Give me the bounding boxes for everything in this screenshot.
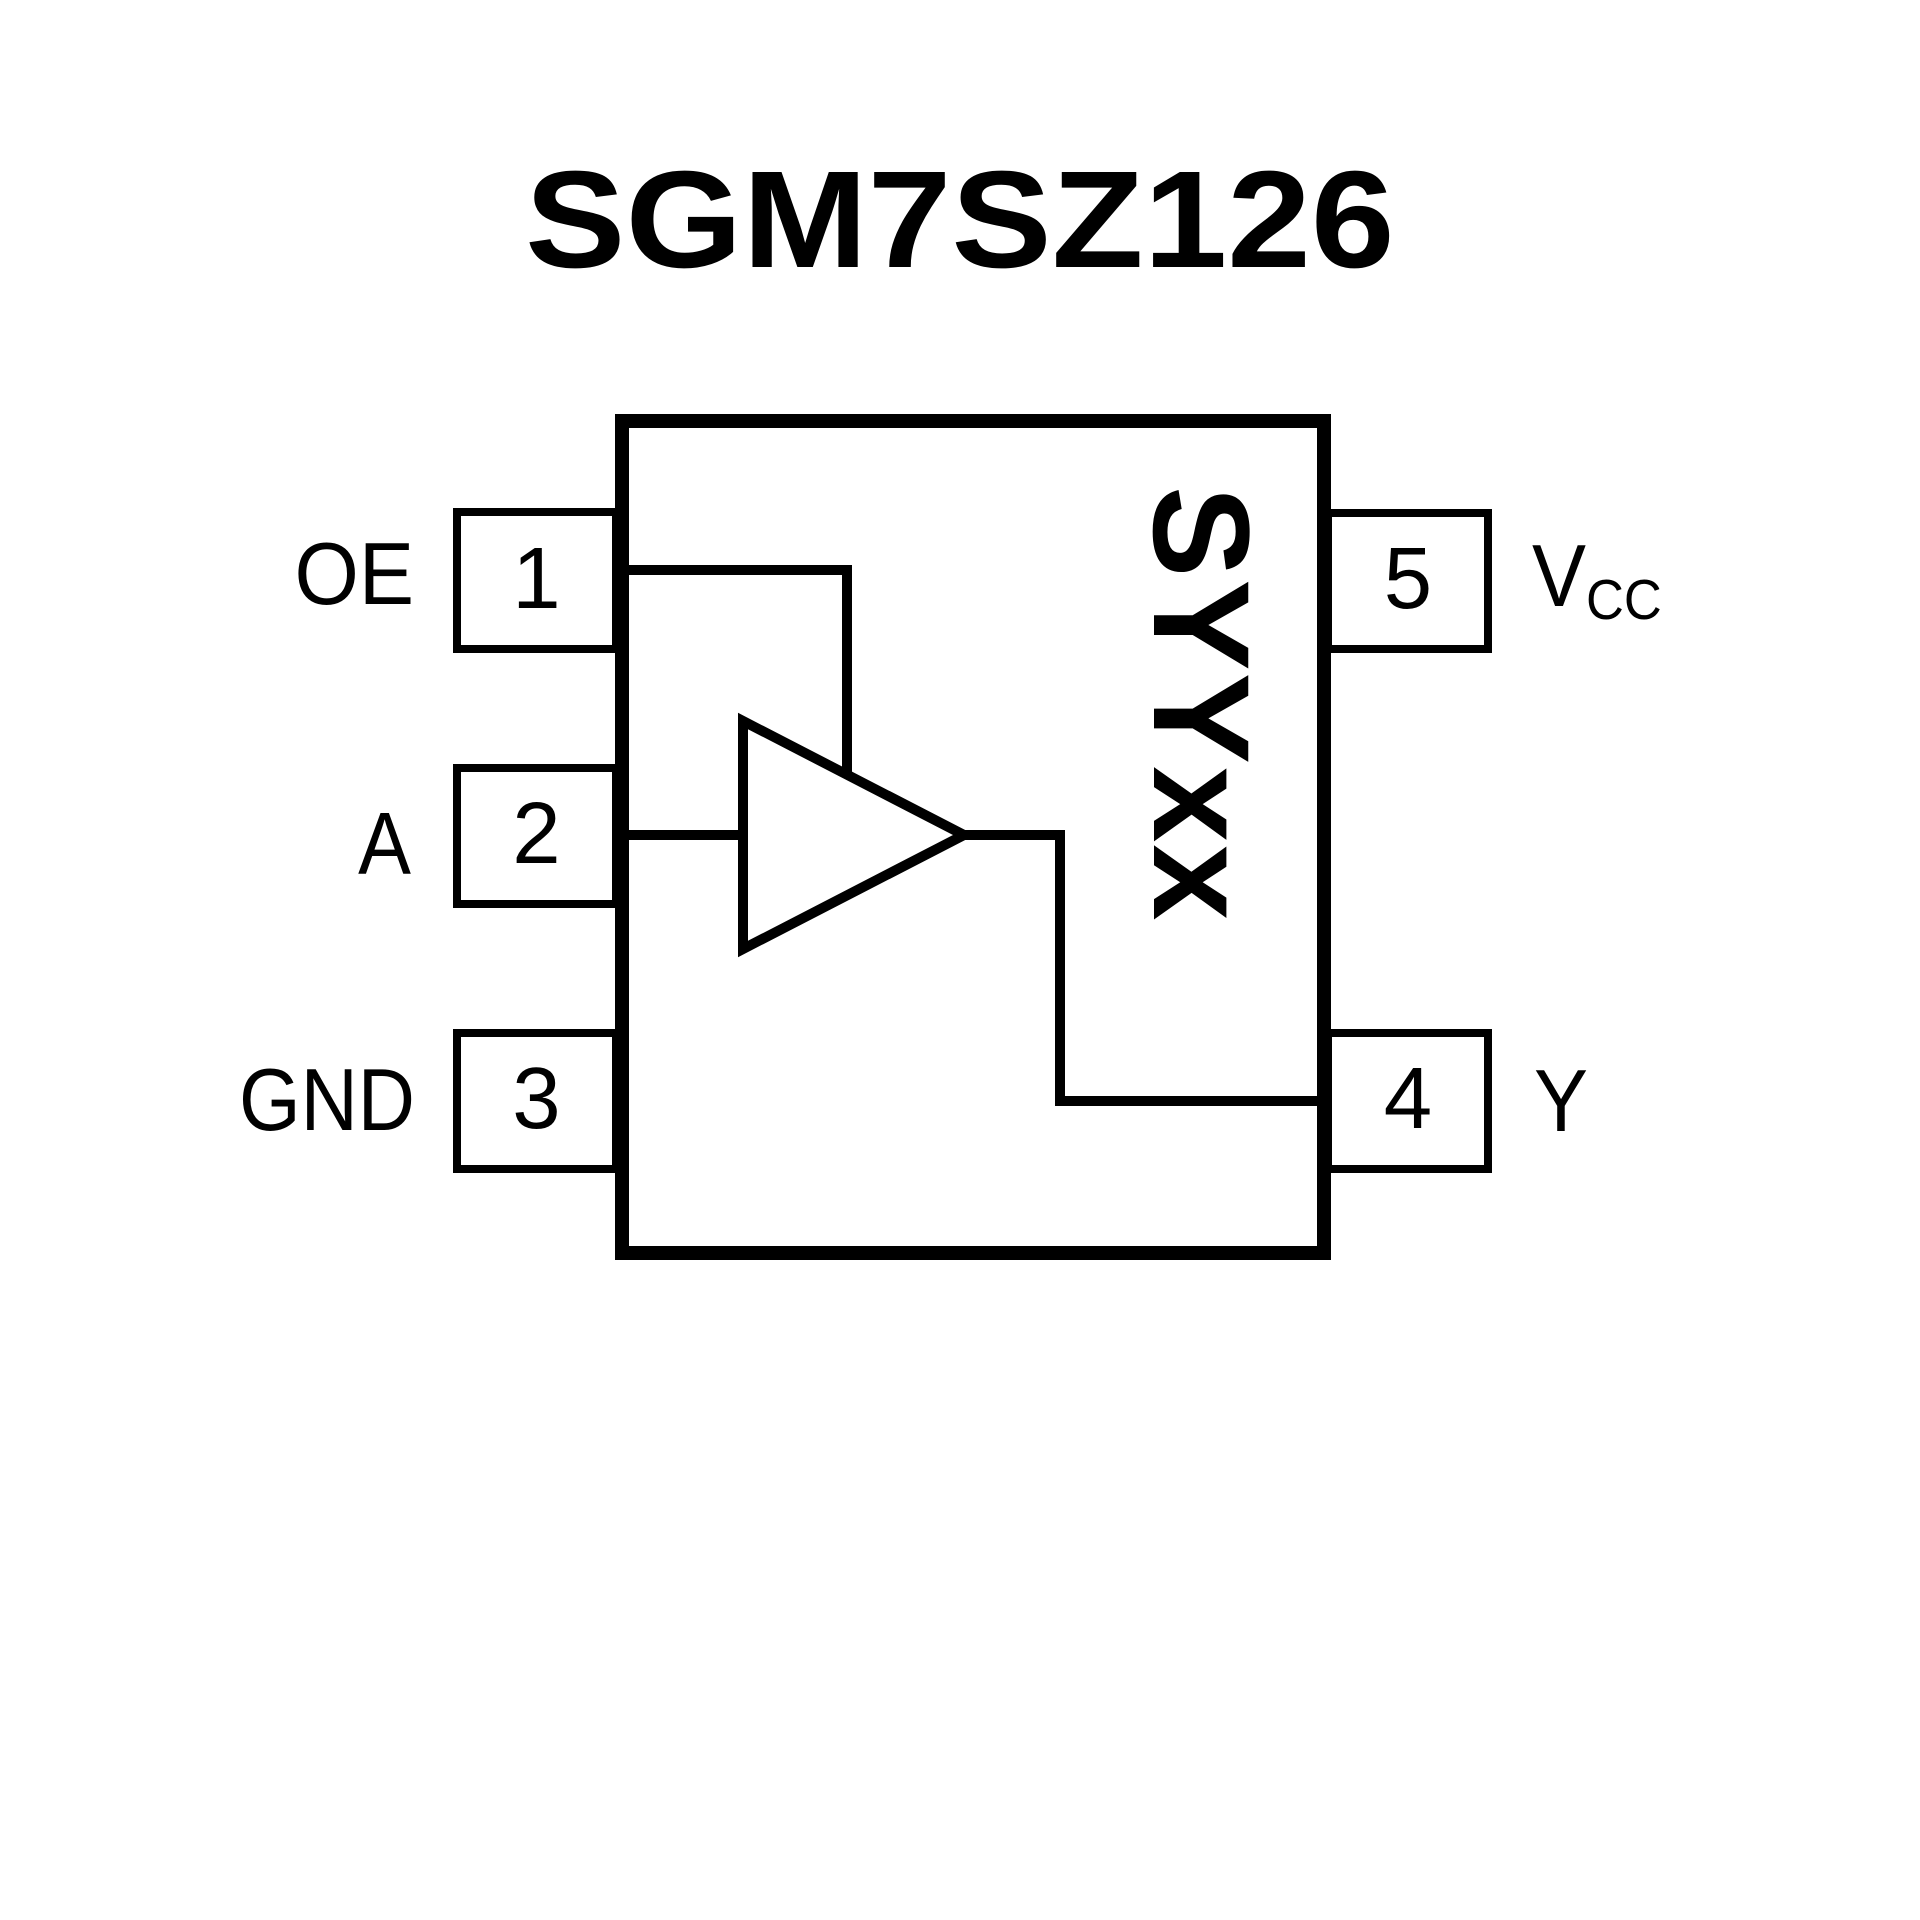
wire A: pin2 to buffer input: [624, 830, 748, 840]
label GND (pin 3): [141, 1049, 416, 1151]
pin 4 box: [1324, 1029, 1492, 1173]
pin 3 box: [453, 1029, 620, 1173]
pin 2 box: [453, 764, 620, 908]
wire OE: pin1 to buffer enable: [624, 570, 847, 777]
label Vcc (pin 5): [1532, 525, 1662, 633]
IC body U1: [615, 414, 1331, 1260]
label OE (pin 1): [128, 523, 414, 625]
wire Y: buffer output to pin4: [958, 835, 1322, 1101]
pin 1 box: [453, 508, 620, 653]
pin 5 box: [1324, 509, 1492, 653]
label Y (pin 4): [1534, 1050, 1588, 1152]
label A (pin 2): [140, 793, 411, 895]
title SGM7SZ126: [0, 141, 1920, 300]
buffer U1 triangle: [743, 721, 964, 949]
marking text SYYxx (rotated): [1122, 486, 1279, 923]
